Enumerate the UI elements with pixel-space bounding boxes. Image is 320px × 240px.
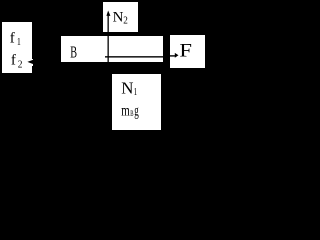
force arrow N2 vertical line [108, 16, 109, 62]
svg-text:N: N [113, 10, 124, 26]
svg-text:f: f [11, 53, 16, 69]
svg-text:2: 2 [18, 59, 23, 70]
svg-text:f: f [10, 30, 15, 46]
svg-text:N: N [121, 78, 133, 97]
force arrow F arrowhead (right) [175, 53, 179, 58]
force arrow f2 arrowhead (left) [27, 60, 33, 65]
svg-text:2: 2 [123, 14, 128, 26]
label box N1/mBg (white patch) [112, 74, 161, 130]
white halo around f2 arrowhead [32, 59, 34, 66]
svg-text:m: m [121, 103, 130, 120]
label box F (white patch) [170, 35, 205, 68]
label box f1/f2 (white patch) [2, 22, 32, 73]
svg-text:1: 1 [17, 37, 21, 48]
svg-text:F: F [179, 40, 192, 61]
svg-text:B: B [130, 109, 133, 118]
svg-text:B: B [70, 42, 77, 61]
force arrow F horizontal line (on beam) [105, 56, 163, 57]
beam B (white slab) [61, 36, 163, 62]
force arrow F horizontal line (to arrowhead) [163, 55, 175, 56]
force arrow N2 arrowhead (up) [106, 11, 110, 16]
label box N2 (white patch) [103, 2, 138, 32]
svg-text:g: g [134, 103, 139, 120]
svg-text:1: 1 [134, 87, 138, 98]
